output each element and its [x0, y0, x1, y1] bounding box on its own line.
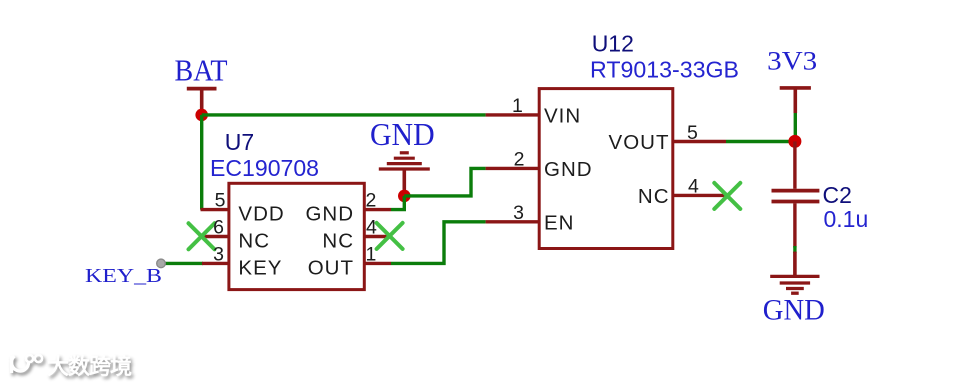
svg-text:2: 2	[514, 149, 525, 171]
svg-text:EN: EN	[544, 211, 574, 234]
svg-text:0.1u: 0.1u	[824, 206, 869, 232]
no-connect X on U7 pin 6	[189, 223, 215, 249]
capacitor C2 top lead	[793, 141, 796, 188]
wire BAT to U12 VIN	[202, 113, 486, 116]
svg-text:OUT: OUT	[308, 256, 354, 279]
svg-text:C2: C2	[823, 182, 852, 208]
svg-text:GND: GND	[305, 203, 354, 226]
svg-text:2: 2	[366, 190, 377, 212]
junction dot 3V3/VOUT	[788, 135, 801, 148]
wire U7 OUT to U12 EN	[391, 222, 486, 264]
svg-text:1: 1	[366, 244, 377, 266]
svg-text:6: 6	[213, 217, 224, 239]
capacitor C2 plates	[772, 191, 820, 202]
no-connect X on U12 pin 4	[714, 183, 740, 209]
svg-text:NC: NC	[322, 230, 354, 253]
power flag BAT	[187, 89, 217, 112]
wire C2 to GND flag	[793, 246, 796, 253]
U7 pin 1 stub	[364, 262, 391, 265]
svg-text:KEY: KEY	[238, 256, 282, 279]
U12 pin 4 stub (NC)	[673, 194, 726, 197]
U7 pin 2 stub	[364, 208, 391, 211]
svg-text:VDD: VDD	[238, 203, 284, 226]
U12 pin 3 stub (EN)	[486, 220, 540, 223]
svg-text:RT9013-33GB: RT9013-33GB	[590, 57, 739, 83]
power flag 3V3	[780, 88, 811, 113]
svg-text:U12: U12	[592, 31, 634, 57]
capacitor C2 bottom lead	[793, 203, 796, 247]
svg-text:5: 5	[215, 190, 226, 212]
svg-text:4: 4	[688, 176, 699, 198]
svg-text:3V3: 3V3	[767, 47, 817, 76]
op U7 body	[229, 183, 364, 289]
U12 pin 2 stub (GND)	[486, 167, 540, 170]
svg-text:5: 5	[687, 122, 698, 144]
watermark text	[47, 354, 134, 382]
svg-text:VOUT: VOUT	[609, 131, 670, 154]
unconnected wire end dot KEY_B	[157, 259, 166, 268]
junction dot BAT	[195, 109, 208, 122]
power flag GND (bottom earth)	[770, 252, 819, 294]
svg-text:大数跨境: 大数跨境	[47, 354, 132, 379]
junction dot GND	[398, 190, 411, 203]
svg-text:3: 3	[213, 244, 224, 266]
regulator U12 body	[539, 89, 673, 249]
wire 3V3 flag to node	[794, 113, 797, 136]
svg-text:3: 3	[513, 202, 524, 224]
svg-text:4: 4	[366, 217, 377, 239]
svg-text:VIN: VIN	[544, 105, 581, 128]
svg-text:EC190708: EC190708	[210, 155, 319, 181]
wire GND dot to U12 GND pin	[404, 168, 485, 196]
power flag GND (middle, inverted earth)	[379, 153, 430, 191]
no-connect X on U7 pin 4	[377, 223, 403, 249]
U12 pin 5 stub (VOUT)	[673, 140, 726, 143]
wire U7 pin2 to GND dot	[391, 196, 404, 210]
svg-text:GND: GND	[763, 293, 825, 326]
U7 pin 6 stub	[202, 235, 229, 238]
svg-text:GND: GND	[370, 116, 435, 152]
svg-text:NC: NC	[638, 185, 670, 208]
U7 pin 4 stub	[364, 235, 391, 238]
svg-text:BAT: BAT	[175, 53, 228, 88]
svg-text:U7: U7	[225, 129, 254, 155]
svg-text:KEY_B: KEY_B	[85, 265, 162, 287]
wire KEY_B to U7 pin 3	[161, 262, 203, 265]
U12 pin 1 stub (VIN)	[486, 113, 540, 116]
U7 pin 5 stub	[201, 208, 229, 211]
wire U12 VOUT to 3V3 node	[726, 140, 795, 143]
svg-text:NC: NC	[238, 230, 270, 253]
wire BAT down to U7 pin 5	[200, 115, 203, 210]
U7 pin 3 stub	[202, 262, 229, 265]
svg-text:GND: GND	[544, 158, 593, 181]
svg-text:1: 1	[512, 95, 523, 117]
watermark logo	[12, 355, 45, 376]
